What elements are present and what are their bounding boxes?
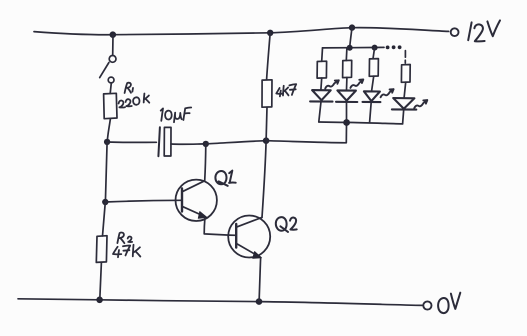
wire: Q2 emitter down to 0V: [259, 259, 261, 302]
transistor Q2: [228, 216, 270, 258]
light arrows D1: [325, 80, 339, 88]
wire: R2 to 0V rail: [100, 262, 102, 299]
resistor R1: [104, 93, 117, 118]
dots: ellipsis continuation: [386, 46, 390, 50]
wire: node to LED return riser: [266, 125, 346, 143]
node: Q1 collector junction: [203, 141, 209, 147]
LED D3: [363, 91, 381, 102]
label: 0V: [438, 293, 460, 313]
node: base junction: [102, 199, 108, 205]
label: Q2: [276, 217, 297, 232]
terminal: 0V: [423, 301, 431, 309]
wire: to D4: [404, 82, 406, 98]
node: rail / R1 branch: [110, 31, 117, 38]
wire: rail to switch: [112, 35, 114, 56]
resistor R3 4k7: [267, 33, 271, 80]
capacitor C1: [158, 127, 160, 156]
wire: dashed bus + branch 4: [405, 64, 407, 66]
wire: Q2 collector up: [262, 141, 266, 218]
LED D2: [336, 90, 357, 102]
wire: D1 to bottom bus: [319, 102, 321, 122]
terminal: 12V: [451, 28, 459, 36]
wire: switch to R1: [110, 83, 111, 93]
resistor: LED branch 4: [401, 65, 410, 83]
wire: branch 3 from bus: [373, 48, 375, 59]
label: R2: [117, 233, 132, 244]
transistor Q1: [176, 180, 217, 221]
label: 47k: [113, 245, 140, 257]
node: 4k7 / Q2 collector junction: [263, 137, 270, 144]
label: 10uF: [161, 107, 192, 122]
resistor: LED branch 2: [343, 60, 352, 77]
light arrows D2: [350, 80, 363, 88]
wire: 4k7 to collector node: [265, 107, 268, 141]
wire: D3 to bottom bus: [370, 102, 372, 122]
label: 12V: [468, 20, 500, 41]
wire: D2 to bottom bus: [346, 102, 348, 122]
wire: to D2: [346, 78, 348, 90]
wire: node A to C1: [107, 141, 156, 143]
wire: LED bottom bus: [319, 122, 403, 124]
label: R1: [125, 83, 133, 93]
wire: node A down to base node: [105, 142, 107, 202]
LED D1: [310, 90, 332, 102]
node: bus feed: [347, 45, 353, 51]
wire: to D3: [372, 76, 374, 91]
label: Q1: [215, 171, 235, 186]
wire: D4 to bottom bus: [403, 110, 404, 124]
wire: Q1 emitter to Q2 base: [204, 218, 236, 235]
node: rail / 4k7 branch: [267, 30, 273, 36]
label: 220k: [119, 94, 150, 108]
wire: LED feed from rail: [350, 28, 352, 48]
light arrows D3: [381, 89, 394, 97]
wire: base node down to R2: [103, 202, 106, 236]
resistor: LED branch 1: [317, 61, 327, 78]
node: bottom rail / R2: [96, 297, 103, 304]
node: rail / LED feed: [349, 24, 355, 30]
wire: to 4k7 node: [206, 141, 266, 144]
wire: base node to Q1 base: [105, 200, 181, 202]
wire: LED top bus: [323, 46, 385, 49]
node: bus branch 3: [372, 45, 378, 51]
wire: branch 2 from bus: [345, 48, 348, 61]
light arrows D4: [414, 100, 427, 108]
wire: dashed drop to branch 4: [404, 51, 406, 64]
node: bottom bus / return: [343, 119, 350, 126]
node A: R1/C1 junction: [104, 139, 110, 145]
LED D4: [392, 98, 416, 110]
node: bottom rail / Q2 emitter: [256, 298, 263, 305]
switch S1 (open): [109, 56, 116, 63]
resistor R2: [96, 236, 107, 263]
wire: 0V bottom rail: [18, 299, 423, 306]
wire: Q1 collector up: [205, 144, 206, 181]
wire: +12V top rail: [34, 28, 449, 35]
wire: C1 to Q1 collector node: [171, 143, 206, 145]
label: 4k7: [276, 84, 296, 96]
wire: R1 to node A: [107, 119, 110, 142]
wire: to D1: [320, 78, 323, 90]
wire: branch 1 from bus: [321, 48, 324, 61]
resistor: LED branch 3: [369, 59, 378, 77]
